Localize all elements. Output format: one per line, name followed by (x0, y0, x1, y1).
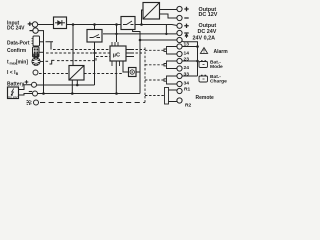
wire dcdc out plus to c1 (160, 9, 178, 11)
terminal 33 (177, 73, 182, 78)
aux battery terminal dashed (34, 100, 39, 105)
dcdc converter box 12V (143, 3, 160, 20)
svg-text:µC: µC (113, 52, 120, 58)
dashed current line left (39, 73, 69, 75)
svg-text:Remote: Remote (196, 95, 215, 101)
battery plus rail (37, 42, 95, 85)
svg-text:DC 24V: DC 24V (7, 26, 25, 32)
plus sign input (28, 22, 32, 26)
wire 33 to bus (182, 75, 197, 77)
uC right pins (126, 50, 134, 57)
terminal c4 minus 24V (177, 30, 182, 35)
svg-text:DC 24V: DC 24V (198, 29, 217, 35)
junction trunk x73 (72, 23, 75, 26)
svg-text:34: 34 (184, 80, 190, 86)
svg-text:24V 0,2A: 24V 0,2A (193, 36, 216, 42)
terminal c3 plus 24V (177, 23, 182, 28)
svg-text:Charge: Charge (210, 79, 227, 85)
wire bar to R1 (169, 89, 178, 91)
current sense box (129, 68, 137, 77)
svg-text:Alarm: Alarm (214, 49, 229, 55)
timer dial (32, 58, 40, 66)
uC box (110, 46, 126, 61)
dashed aux riser (144, 96, 146, 103)
junction input minus on rail (42, 92, 45, 95)
confirm stub (39, 51, 44, 53)
wire c5 to relay bus (182, 41, 198, 76)
dashed current line right (84, 73, 123, 75)
relay contact 33-34 (164, 76, 177, 84)
sense to trunk stub (136, 71, 140, 73)
dashed aux line (40, 102, 145, 104)
wire bar to R2 (169, 101, 178, 103)
svg-text:B: B (16, 72, 19, 76)
wire trunk after series switch (135, 25, 177, 26)
wire main trunk 24V (67, 24, 122, 26)
vertical trunk to c4 (165, 25, 167, 34)
wire 23 to bus (182, 60, 197, 62)
junction c4 line x116.5 (115, 33, 117, 35)
wire uC sense tap (116, 25, 118, 43)
common minus rail (38, 93, 141, 95)
junction uC on rail (115, 92, 118, 95)
junction bus 13 (196, 45, 199, 48)
battery minus terminal (33, 91, 38, 96)
svg-text:Confirm: Confirm (7, 48, 27, 54)
switch blade S2 (123, 21, 134, 25)
dashed relay control trunk (136, 48, 165, 96)
uC top pins (112, 42, 118, 46)
wire dcdc out minus to c2 (160, 14, 178, 18)
battery minus wire (19, 94, 33, 96)
relay contact 13-14 (164, 47, 177, 55)
plus battery (25, 80, 29, 84)
dcdc diagonal (143, 3, 160, 20)
terminal c1 plus 12V (177, 6, 182, 11)
wire drop x94.5 into switch box (94, 25, 96, 30)
svg-text:DC 12V: DC 12V (199, 12, 218, 18)
charger dcdc box (69, 66, 84, 81)
svg-text:14: 14 (184, 50, 190, 56)
service jumper tick (46, 42, 54, 50)
minus sign input (30, 30, 34, 32)
battery box (8, 87, 19, 99)
junction bus 23 (196, 60, 199, 63)
minus c2 (184, 17, 188, 19)
plus c1 (184, 7, 188, 11)
warning triangle alarm (200, 48, 207, 54)
wire aux 24V feed (140, 39, 177, 41)
dashed dial line cont (57, 57, 110, 61)
diode box D1 (54, 17, 67, 29)
aux icon (27, 101, 31, 105)
wire drop x73 to charger (72, 25, 74, 66)
minus c4 (184, 32, 188, 34)
svg-text:[min]: [min] (16, 60, 29, 66)
bat mode icon (199, 62, 208, 68)
dial stub (40, 61, 44, 63)
timer contact symbol (50, 60, 55, 64)
junction trunk x94.5 (93, 23, 96, 26)
wire input plus to diode (38, 24, 54, 26)
terminal input minus (33, 28, 38, 33)
terminal 13 (177, 44, 182, 49)
terminal c5 plus aux (177, 37, 182, 42)
wire dcdc feed up (142, 10, 144, 25)
current terminal (33, 70, 38, 75)
dashed dial line (46, 60, 50, 62)
remote jumper bar (165, 88, 169, 105)
dashed line row3 (53, 49, 110, 51)
svg-text:DC 24V: DC 24V (8, 95, 18, 99)
svg-text:24: 24 (184, 65, 190, 71)
charger out minus (71, 80, 73, 94)
dashed confirm line (46, 52, 110, 54)
uC bottom pin to rail (115, 61, 117, 94)
relay contact 23-24 (164, 61, 177, 69)
switch box S1 (87, 30, 102, 43)
wire c4 line (103, 33, 177, 35)
bat charge icon (199, 76, 208, 82)
junction trunk x141.5 (140, 23, 143, 26)
uC bottom stubs (112, 61, 120, 66)
data port stub (40, 41, 44, 43)
terminal R1 (177, 88, 182, 93)
svg-text:I < I: I < I (7, 70, 16, 76)
battery plus terminal (32, 82, 37, 87)
plus arrow c5 (185, 34, 188, 38)
svg-text:Data-Port: Data-Port (7, 41, 30, 47)
battery wires (19, 85, 32, 90)
minus battery (29, 91, 32, 93)
junction aux feed (139, 39, 142, 42)
battery symbol (11, 89, 14, 96)
switch blade S1 (90, 35, 101, 38)
junction trunk x116.5 (115, 23, 118, 26)
junction confirm line x94.5 (93, 52, 95, 54)
svg-text:Mode: Mode (210, 64, 223, 70)
svg-text:R2: R2 (185, 103, 192, 109)
svg-text:R1: R1 (184, 86, 191, 92)
junction c4 line x166.4 (165, 33, 167, 35)
terminal input plus (32, 22, 37, 27)
diode symbol (55, 22, 65, 24)
plus c3 (184, 24, 188, 28)
series switch box S2 (121, 17, 135, 30)
long vertical minus trunk (133, 30, 140, 94)
terminal 24 (177, 66, 182, 71)
wire 13 to bus (182, 46, 197, 48)
uC pin to sense (123, 61, 129, 72)
confirm connector (33, 47, 40, 57)
terminal 34 (177, 81, 182, 86)
terminal 14 (177, 51, 182, 56)
charger out plus (76, 80, 78, 85)
terminal 23 (177, 58, 182, 63)
terminal R2 (177, 98, 182, 103)
terminal c2 minus 12V (177, 15, 182, 20)
wire input minus down (38, 31, 44, 94)
data port connector (33, 36, 40, 46)
